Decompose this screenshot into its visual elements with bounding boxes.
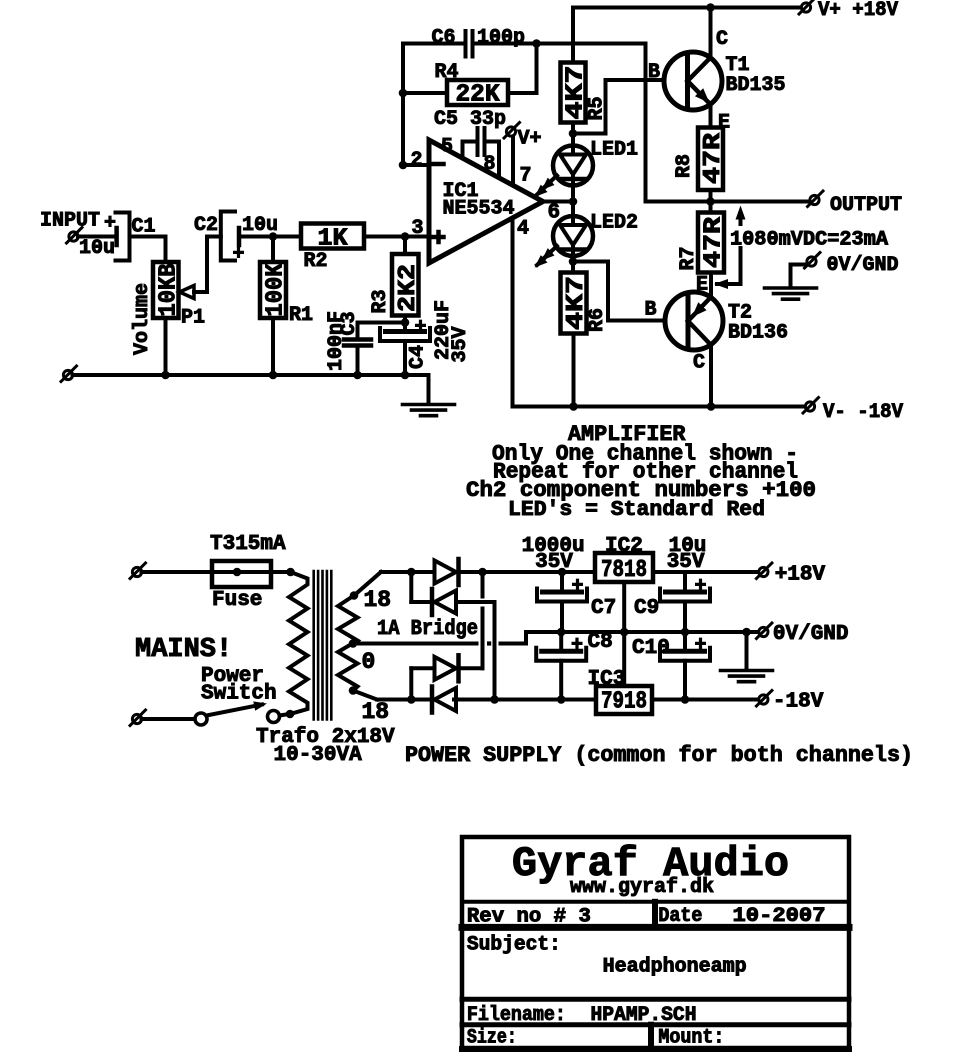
svg-text:INPUT: INPUT (40, 210, 100, 233)
svg-text:35V: 35V (535, 551, 573, 574)
svg-text:2: 2 (411, 149, 423, 172)
svg-text:R2: R2 (304, 250, 328, 273)
svg-text:C6: C6 (432, 27, 456, 50)
svg-text:1080mVDC=23mA: 1080mVDC=23mA (730, 229, 888, 252)
svg-text:BD136: BD136 (728, 322, 788, 345)
svg-text:18: 18 (364, 587, 392, 613)
svg-text:7: 7 (520, 165, 532, 188)
svg-text:V+ +18V: V+ +18V (818, 0, 898, 22)
svg-text:47R: 47R (700, 132, 727, 184)
svg-text:BD135: BD135 (726, 74, 786, 97)
svg-text:R1: R1 (289, 304, 313, 327)
svg-text:C2: C2 (194, 214, 218, 237)
svg-text:0V/GND: 0V/GND (827, 254, 899, 277)
svg-text:C3: C3 (338, 311, 361, 335)
svg-text:P1: P1 (181, 307, 205, 330)
svg-text:E: E (696, 274, 708, 297)
svg-text:-18V: -18V (773, 691, 824, 714)
svg-text:35V: 35V (449, 326, 472, 362)
svg-text:V+: V+ (518, 128, 542, 151)
svg-text:NE5534: NE5534 (443, 198, 515, 221)
svg-text:Filename:: Filename: (467, 1004, 566, 1027)
svg-text:10u: 10u (79, 237, 115, 260)
svg-text:Rev no # 3: Rev no # 3 (467, 905, 591, 928)
svg-text:C8: C8 (588, 631, 613, 654)
svg-text:10KB: 10KB (155, 264, 182, 317)
svg-text:C1: C1 (132, 216, 156, 239)
svg-text:R4: R4 (435, 61, 459, 84)
svg-text:C10: C10 (632, 637, 670, 660)
svg-text:+: + (104, 212, 116, 235)
svg-text:R8: R8 (673, 154, 696, 178)
svg-text:0: 0 (362, 649, 376, 675)
svg-text:1K: 1K (318, 226, 349, 253)
svg-text:+: + (232, 243, 244, 266)
svg-text:LED2: LED2 (590, 212, 638, 235)
svg-text:100p: 100p (477, 27, 525, 50)
svg-text:R7: R7 (677, 246, 700, 270)
svg-text:10-2007: 10-2007 (733, 905, 826, 928)
svg-text:www.gyraf.dk: www.gyraf.dk (570, 876, 714, 899)
svg-text:Date: Date (658, 905, 702, 928)
svg-text:2K2: 2K2 (395, 264, 422, 312)
svg-text:C: C (716, 28, 728, 51)
svg-text:C9: C9 (634, 597, 659, 620)
svg-text:R3: R3 (369, 289, 392, 313)
svg-text:Volume: Volume (131, 283, 154, 355)
svg-text:Headphoneamp: Headphoneamp (603, 956, 747, 979)
svg-text:1A Bridge: 1A Bridge (377, 618, 478, 641)
svg-text:Size:: Size: (467, 1027, 517, 1050)
svg-text:Fuse: Fuse (212, 589, 262, 612)
svg-text:C: C (693, 352, 705, 375)
svg-text:MAINS!: MAINS! (135, 635, 232, 665)
svg-text:0V/GND: 0V/GND (773, 623, 849, 646)
svg-text:IC2: IC2 (605, 535, 643, 558)
svg-text:R6: R6 (586, 308, 609, 332)
svg-text:V- -18V: V- -18V (823, 401, 903, 424)
svg-text:7918: 7918 (601, 689, 647, 716)
svg-text:18: 18 (362, 699, 390, 725)
svg-text:POWER SUPPLY (common for both: POWER SUPPLY (common for both channels) (405, 743, 913, 768)
svg-text:100K: 100K (263, 263, 290, 317)
svg-text:Switch: Switch (201, 683, 277, 706)
svg-text:+: + (571, 575, 583, 598)
svg-text:5: 5 (441, 136, 453, 159)
svg-text:+: + (571, 634, 583, 657)
svg-text:C4: C4 (407, 345, 430, 369)
svg-text:+: + (694, 634, 706, 657)
svg-text:LED1: LED1 (590, 139, 638, 162)
svg-text:4: 4 (517, 218, 529, 241)
svg-text:47R: 47R (701, 216, 728, 268)
svg-text:OUTPUT: OUTPUT (830, 194, 902, 217)
svg-text:22K: 22K (456, 82, 501, 109)
svg-text:+18V: +18V (775, 564, 826, 587)
svg-text:Subject:: Subject: (467, 934, 561, 957)
svg-text:3: 3 (412, 217, 424, 240)
svg-text:+: + (694, 575, 706, 598)
svg-text:8: 8 (484, 153, 496, 176)
svg-text:+: + (414, 316, 426, 339)
svg-text:IC3: IC3 (588, 668, 626, 691)
svg-text:7818: 7818 (601, 557, 647, 584)
svg-text:HPAMP.SCH: HPAMP.SCH (591, 1004, 697, 1027)
svg-text:Mount:: Mount: (658, 1027, 724, 1050)
svg-text:B: B (645, 299, 657, 322)
svg-text:T315mA: T315mA (210, 533, 286, 556)
svg-text:10-30VA: 10-30VA (274, 744, 363, 767)
svg-text:C5 33p: C5 33p (434, 108, 506, 131)
svg-text:C7: C7 (591, 597, 616, 620)
svg-text:LED's = Standard Red: LED's = Standard Red (508, 499, 765, 522)
svg-text:B: B (648, 61, 660, 84)
